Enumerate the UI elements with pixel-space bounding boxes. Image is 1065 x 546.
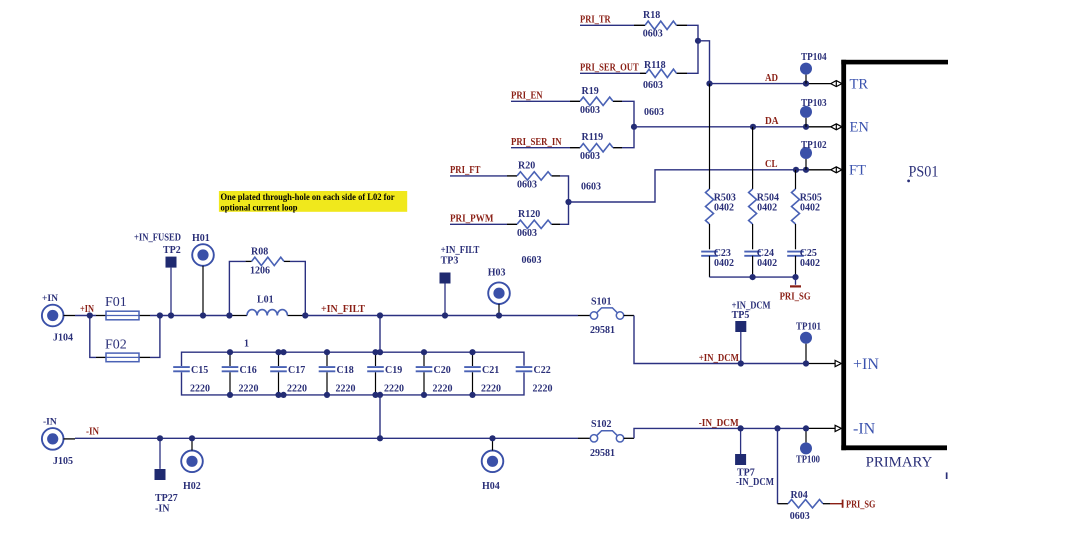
capacitor C17 xyxy=(278,352,280,366)
svg-text:PRI_FT: PRI_FT xyxy=(450,165,481,176)
svg-text:2220: 2220 xyxy=(533,384,553,395)
svg-text:-IN_DCM: -IN_DCM xyxy=(736,477,774,488)
junction TP101 xyxy=(803,360,809,366)
svg-text:J104: J104 xyxy=(53,333,73,344)
junction top rail xyxy=(324,349,330,355)
svg-text:2220: 2220 xyxy=(287,384,307,395)
junction DA/R504 xyxy=(750,124,756,130)
svg-text:C16: C16 xyxy=(240,365,257,376)
resistor R505 xyxy=(792,189,800,224)
svg-text:29581: 29581 xyxy=(590,448,615,459)
wire PRI_FT to R20 xyxy=(450,175,507,177)
svg-text:FT: FT xyxy=(849,163,866,179)
svg-text:PRIMARY: PRIMARY xyxy=(866,454,933,470)
resistor R08 xyxy=(252,257,284,265)
extra junction C17 bottom xyxy=(280,392,286,398)
capacitor C15 xyxy=(173,366,190,368)
riser cap bank to -IN wire xyxy=(379,395,381,438)
junction +IN/F02 left xyxy=(87,312,93,318)
junction TP2 xyxy=(168,312,174,318)
wire to R04 xyxy=(777,428,779,503)
svg-text:PRI_TR: PRI_TR xyxy=(580,15,611,26)
component PS01 box bottom edge xyxy=(841,445,947,450)
wire +IN main xyxy=(75,315,96,317)
test point TP100 xyxy=(800,442,812,454)
junction TP100 xyxy=(803,425,809,431)
svg-text:F02: F02 xyxy=(105,338,127,353)
junction H04 xyxy=(489,435,495,441)
svg-text:0402: 0402 xyxy=(800,258,820,269)
svg-text:R08: R08 xyxy=(251,246,268,257)
junction bottom rail xyxy=(421,392,427,398)
lead H03 xyxy=(498,304,500,316)
svg-text:+IN: +IN xyxy=(853,356,879,373)
svg-text:optional current loop: optional current loop xyxy=(221,203,298,213)
junction R04 branch xyxy=(774,425,780,431)
wire PRI_EN to R19 xyxy=(511,100,570,102)
wire +IN_DCM xyxy=(634,316,806,364)
fuse F02 xyxy=(106,353,139,362)
wire PRI_SER_OUT to R118 xyxy=(580,72,640,74)
pin lead EN xyxy=(806,126,831,128)
lead to S101 xyxy=(578,315,590,317)
junction TP7 xyxy=(738,425,744,431)
connector J105 xyxy=(42,428,64,450)
svg-text:S101: S101 xyxy=(591,297,612,308)
net tie PRI_SG at R04 xyxy=(830,503,843,505)
hole H04 xyxy=(482,451,504,473)
resistor R118 xyxy=(646,69,676,77)
junction TP5 xyxy=(738,360,744,366)
test point TP103 xyxy=(800,106,812,118)
inductor L01 leads xyxy=(229,315,247,317)
junction H01 xyxy=(200,312,206,318)
resistor R504 xyxy=(749,189,757,224)
pin arrow EN xyxy=(831,124,842,130)
test point TP2 xyxy=(166,257,177,268)
junction TP3 xyxy=(442,312,448,318)
junction top rail xyxy=(469,349,475,355)
svg-text:0603: 0603 xyxy=(522,255,542,266)
svg-text:C17: C17 xyxy=(288,365,305,376)
extra junction C17 top xyxy=(280,349,286,355)
resistor R119 xyxy=(580,144,613,152)
partial glyph right of PRIMARY xyxy=(946,472,948,479)
junction TP27 xyxy=(157,435,163,441)
lead to S102 xyxy=(578,437,590,439)
svg-text:0603: 0603 xyxy=(580,151,600,162)
capacitor C20 xyxy=(423,352,425,366)
junction bottom rail xyxy=(372,392,378,398)
capacitor C25 xyxy=(787,251,804,253)
svg-text:R04: R04 xyxy=(791,490,808,501)
svg-text:PRI_SG: PRI_SG xyxy=(780,292,811,303)
junction H03 xyxy=(496,312,502,318)
connector J104 xyxy=(42,305,64,327)
extra junction C19 top xyxy=(377,349,383,355)
wire -IN main xyxy=(75,437,578,439)
capacitor C22 xyxy=(516,366,533,368)
junction riser bottom xyxy=(377,435,383,441)
svg-text:R120: R120 xyxy=(518,209,540,220)
junction CL/R505 xyxy=(793,167,799,173)
svg-text:0603: 0603 xyxy=(517,228,537,239)
lead R504 to C24 xyxy=(752,224,754,249)
lead C24 to rail xyxy=(752,256,754,277)
junction F02 right xyxy=(157,312,163,318)
svg-text:+IN_FILT: +IN_FILT xyxy=(321,304,365,315)
riser main wire to cap bank xyxy=(379,316,381,353)
lead R505 to C25 xyxy=(795,224,797,249)
wire junction to AD column xyxy=(698,41,710,84)
junction bottom rail xyxy=(469,392,475,398)
component PS01 box left edge xyxy=(841,60,846,450)
svg-text:0603: 0603 xyxy=(644,107,664,118)
svg-text:C20: C20 xyxy=(434,365,451,376)
component PS01 box top edge xyxy=(841,60,948,65)
wire DA net xyxy=(634,126,806,128)
hole H03 xyxy=(488,282,510,304)
svg-text:CL: CL xyxy=(765,159,778,170)
junction H02 xyxy=(189,435,195,441)
lead R04 left xyxy=(778,503,789,505)
wire PRI_PWM to R120 xyxy=(450,223,507,225)
svg-text:R119: R119 xyxy=(582,132,604,143)
lead from S101 xyxy=(624,315,634,317)
pin lead +IN xyxy=(806,363,835,365)
lead to resistor R504 xyxy=(752,127,754,189)
pin arrow -IN xyxy=(835,425,841,431)
switch S102 xyxy=(590,435,597,442)
svg-text:TP27: TP27 xyxy=(155,493,178,504)
svg-text:C22: C22 xyxy=(534,365,551,376)
junction rail/C24 xyxy=(750,274,756,280)
junction AD column xyxy=(706,81,712,87)
hole H01 xyxy=(192,244,214,266)
lead H04 xyxy=(492,438,494,450)
svg-text:-IN: -IN xyxy=(155,504,170,515)
svg-text:-IN: -IN xyxy=(43,418,57,428)
svg-text:PRI_PWM: PRI_PWM xyxy=(450,214,494,225)
svg-text:C15: C15 xyxy=(191,365,208,376)
svg-text:-IN: -IN xyxy=(86,427,100,438)
note: plated through-hole xyxy=(219,191,407,212)
wire CL net xyxy=(569,170,807,202)
svg-text:TP104: TP104 xyxy=(801,52,827,63)
svg-text:PRI_EN: PRI_EN xyxy=(511,91,543,102)
svg-text:R118: R118 xyxy=(644,60,666,71)
lead C23 to rail xyxy=(709,256,711,277)
svg-text:R18: R18 xyxy=(643,10,660,21)
wire PRI_SER_IN to R119 xyxy=(511,147,570,149)
capacitor C19 xyxy=(375,352,377,366)
svg-text:0603: 0603 xyxy=(643,80,663,91)
svg-text:2220: 2220 xyxy=(190,384,210,395)
svg-text:EN: EN xyxy=(850,120,870,136)
svg-text:0603: 0603 xyxy=(580,105,600,116)
junction CL/TP102 xyxy=(803,167,809,173)
junction of R20/R120 xyxy=(565,199,571,205)
junction top rail xyxy=(275,349,281,355)
svg-text:0402: 0402 xyxy=(714,258,734,269)
junction AD/TP104 xyxy=(803,81,809,87)
svg-text:DA: DA xyxy=(765,116,779,127)
wire PRI_TR to R18 xyxy=(580,24,634,26)
junction DA/TP103 xyxy=(803,124,809,130)
svg-text:TP103: TP103 xyxy=(801,98,827,109)
pin arrow TR xyxy=(831,81,842,87)
svg-text:+IN: +IN xyxy=(80,304,95,315)
junction top rail xyxy=(227,349,233,355)
svg-text:H03: H03 xyxy=(488,268,506,279)
pin lead FT xyxy=(806,169,831,171)
lead from S102 xyxy=(624,437,634,439)
pin arrow +IN xyxy=(835,360,841,366)
svg-text:0603: 0603 xyxy=(581,181,601,192)
test point TP104 xyxy=(800,63,812,75)
svg-text:0603: 0603 xyxy=(643,29,663,40)
svg-text:0402: 0402 xyxy=(757,202,777,213)
junction bottom rail xyxy=(324,392,330,398)
lead to resistor R503 xyxy=(709,84,711,189)
svg-text:TP102: TP102 xyxy=(801,140,827,151)
svg-text:H04: H04 xyxy=(482,481,500,492)
svg-text:2220: 2220 xyxy=(384,384,404,395)
test point TP102 xyxy=(800,147,812,159)
pin lead -IN xyxy=(806,427,835,429)
junction bottom rail xyxy=(227,392,233,398)
hole H02 xyxy=(181,451,203,473)
lead C25 to rail xyxy=(795,256,797,277)
svg-text:H02: H02 xyxy=(183,481,201,492)
svg-text:PRI_SER_IN: PRI_SER_IN xyxy=(511,137,562,148)
svg-text:L01: L01 xyxy=(257,295,274,306)
test point TP101 xyxy=(800,332,812,344)
fuse F01 xyxy=(106,311,139,320)
svg-text:C18: C18 xyxy=(337,365,354,376)
wire -IN_DCM xyxy=(634,428,806,438)
test point TP7 xyxy=(740,428,742,454)
junction of R18/R118 xyxy=(695,38,701,44)
svg-text:TR: TR xyxy=(850,76,869,92)
lead H02 xyxy=(191,438,193,450)
resistor R04 xyxy=(788,500,823,508)
svg-text:0402: 0402 xyxy=(757,258,777,269)
svg-text:0402: 0402 xyxy=(800,202,820,213)
svg-text:F01: F01 xyxy=(105,295,127,310)
svg-text:H01: H01 xyxy=(192,233,210,244)
cap bank top rail xyxy=(182,352,525,366)
lead J104 xyxy=(64,315,76,317)
lead H01 xyxy=(202,266,204,316)
capacitor C21 xyxy=(472,352,474,366)
svg-text:0603: 0603 xyxy=(517,179,537,190)
svg-text:S102: S102 xyxy=(591,419,612,430)
svg-text:+IN: +IN xyxy=(42,294,58,304)
junction top rail xyxy=(372,349,378,355)
capacitor C23 xyxy=(701,251,718,253)
svg-text:PS01: PS01 xyxy=(909,164,939,181)
net tie PRI_SG under C25 xyxy=(795,277,797,285)
wire AD net xyxy=(710,83,807,85)
junction top rail xyxy=(421,349,427,355)
switch S101 xyxy=(590,312,597,319)
svg-text:TP100: TP100 xyxy=(796,455,820,466)
junction rail/C25 xyxy=(792,274,798,280)
capacitor C16 xyxy=(229,352,231,366)
wire +IN_FILT xyxy=(305,315,578,317)
svg-text:TP5: TP5 xyxy=(732,310,750,321)
svg-text:One plated through-hole on eac: One plated through-hole on each side of … xyxy=(221,193,395,203)
svg-text:-IN_DCM: -IN_DCM xyxy=(699,418,740,429)
svg-text:0402: 0402 xyxy=(714,202,734,213)
resistor R18 xyxy=(645,21,677,29)
svg-text:0603: 0603 xyxy=(790,511,810,522)
svg-text:C21: C21 xyxy=(482,365,499,376)
bottom rail of C23-C25 xyxy=(710,276,796,278)
svg-text:PRI_SER_OUT: PRI_SER_OUT xyxy=(580,63,639,74)
svg-text:R20: R20 xyxy=(518,160,535,171)
cap bank bottom rail xyxy=(182,372,525,395)
resistor R20 xyxy=(517,172,552,180)
pin lead TR xyxy=(806,83,831,85)
test point TP27 xyxy=(159,438,161,469)
lead to resistor R505 xyxy=(795,170,797,189)
resistor R503 xyxy=(706,189,714,224)
capacitor C24 xyxy=(744,251,761,253)
lead J105 xyxy=(64,438,76,440)
svg-text:TP3: TP3 xyxy=(441,255,459,266)
junction riser top xyxy=(377,312,383,318)
test point TP3 xyxy=(440,273,451,284)
svg-text:R19: R19 xyxy=(582,86,599,97)
svg-text:TP101: TP101 xyxy=(796,322,821,333)
junction bottom rail xyxy=(275,392,281,398)
resistor R08 branch wires xyxy=(229,261,245,315)
svg-text:+IN_FUSED: +IN_FUSED xyxy=(134,232,181,243)
junction L01 right xyxy=(302,312,308,318)
svg-text:C19: C19 xyxy=(385,365,402,376)
test point TP5 xyxy=(735,321,746,332)
resistor R120 xyxy=(517,220,552,228)
lead R04 right xyxy=(823,503,830,505)
svg-text:29581: 29581 xyxy=(590,325,615,336)
svg-text:TP2: TP2 xyxy=(163,245,181,256)
svg-text:2220: 2220 xyxy=(481,384,501,395)
pin arrow FT xyxy=(831,167,842,173)
svg-text:J105: J105 xyxy=(53,456,73,467)
inductor L01 xyxy=(247,310,287,316)
svg-text:1: 1 xyxy=(244,339,249,350)
extra junction C19 bottom xyxy=(377,392,383,398)
svg-text:PRI_SG: PRI_SG xyxy=(846,500,876,511)
svg-text:2220: 2220 xyxy=(433,384,453,395)
resistor R19 xyxy=(580,97,613,105)
svg-text:2220: 2220 xyxy=(239,384,259,395)
svg-text:2220: 2220 xyxy=(336,384,356,395)
lead R503 to C23 xyxy=(709,224,711,249)
svg-text:-IN: -IN xyxy=(853,421,876,438)
junction L01 left xyxy=(226,312,232,318)
svg-text:AD: AD xyxy=(765,73,778,84)
capacitor C18 xyxy=(326,352,328,366)
svg-text:+IN_DCM: +IN_DCM xyxy=(699,353,740,364)
svg-text:1206: 1206 xyxy=(250,266,270,277)
wire F02 branch xyxy=(90,316,96,358)
junction of R19/R119 xyxy=(631,124,637,130)
